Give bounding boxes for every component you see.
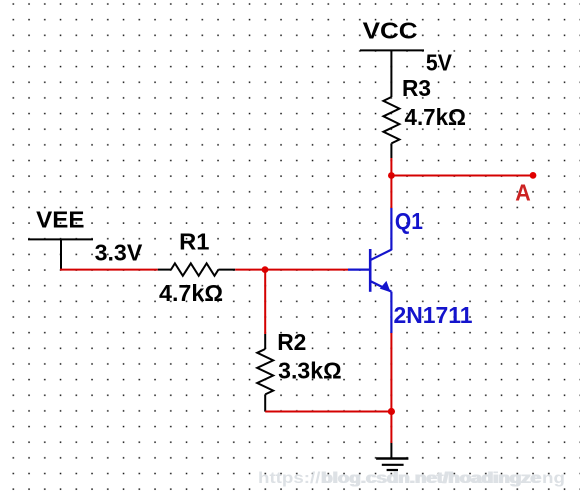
resistor R1 [158,263,235,275]
svg-text:VCC: VCC [363,17,418,43]
junction collector node [388,172,395,179]
svg-text:4.7kΩ: 4.7kΩ [405,104,467,130]
wire R2 to emitter junction [265,411,391,413]
ground [376,443,408,470]
wire base junction to Q1 base [265,269,348,271]
junction emitter node [388,408,395,415]
wire emitter junction to ground [390,412,392,444]
wire R3 to collector node [390,158,392,176]
svg-text:2N1711: 2N1711 [394,302,473,328]
emitter arrow of Q1 [380,281,391,292]
wire base junction down to R2 [264,270,266,334]
wire R1 to base junction [235,269,265,271]
node A terminal dot [530,172,537,179]
power symbol VCC [360,50,424,97]
svg-text:3.3kΩ: 3.3kΩ [278,357,341,383]
resistor R2 [257,334,273,412]
svg-text:A: A [515,180,531,206]
power symbol VEE [28,239,93,269]
svg-text:VEE: VEE [36,207,84,233]
wire collector node down [390,176,392,209]
svg-text:R1: R1 [179,229,210,255]
svg-text:4.7kΩ: 4.7kΩ [159,280,223,306]
svg-text:3.3V: 3.3V [95,239,143,265]
wire VEE to R1 [60,269,158,271]
svg-text:5V: 5V [426,49,453,75]
svg-text:blog.csdn.net/hoadingzeng: blog.csdn.net/hoadingzeng [322,470,565,487]
transistor Q1 [348,208,391,333]
wire Q1 emitter down [390,333,392,412]
resistor R3 [383,97,399,158]
svg-text:Q1: Q1 [395,208,423,234]
wire collector node to node A [391,175,533,177]
junction base node [262,266,269,273]
svg-text:R3: R3 [402,75,431,101]
svg-text:R2: R2 [277,329,306,355]
watermark [258,470,565,487]
